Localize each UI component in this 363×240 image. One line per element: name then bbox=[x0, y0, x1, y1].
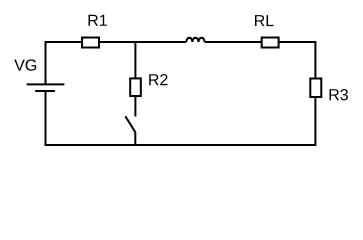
label VG bbox=[14, 59, 36, 70]
label R2 bbox=[149, 74, 167, 85]
wire: switch bottom contact to bottom rail bbox=[134, 132, 136, 145]
label RL bbox=[255, 15, 274, 26]
resistor R1 bbox=[82, 38, 99, 48]
node A: junction of R1, inductor, R2 branch bbox=[134, 42, 136, 78]
inductor L1 bbox=[186, 38, 204, 42]
voltage source VG (battery plates) bbox=[27, 84, 65, 91]
wire: RL right and down to R3 bbox=[279, 42, 316, 78]
label R1 bbox=[89, 15, 107, 26]
wire: R1 to inductor (junction at node A) bbox=[100, 41, 186, 43]
wire: R2 to switch top contact bbox=[134, 97, 136, 117]
wire: VG positive terminal up and right to R1 bbox=[46, 42, 82, 84]
wire: inductor to RL bbox=[205, 41, 261, 43]
label R3 bbox=[330, 89, 348, 100]
resistor R3 bbox=[310, 79, 321, 98]
switch S1 (open blade) bbox=[125, 116, 135, 132]
wire: VG negative terminal down, bottom rail, up to R3 bbox=[46, 91, 316, 145]
resistor R2 bbox=[130, 78, 141, 96]
resistor RL bbox=[262, 38, 279, 48]
